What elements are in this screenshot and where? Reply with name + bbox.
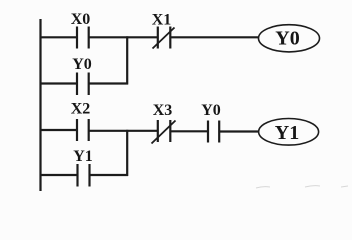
wire rung2: Y0 contact to coil Y1 xyxy=(219,130,259,132)
coil Y0 (output) xyxy=(259,25,320,52)
coil Y1 (output) xyxy=(259,119,319,146)
contact Y0 (normally open, parallel branch) xyxy=(77,73,89,96)
contact Y0 (normally open, series rung2) xyxy=(208,121,219,143)
wire rung1: X0 to X1 (through branch junction) xyxy=(89,36,158,38)
branch junction wire (rung2 down to parallel branch) xyxy=(126,130,128,176)
svg-text:Y0: Y0 xyxy=(201,102,221,119)
wire branch1: rail to contact Y0 xyxy=(40,82,77,84)
wire rung2: X3 to contact Y0 xyxy=(170,130,208,132)
svg-text:Y1: Y1 xyxy=(73,148,93,165)
wire rung1: X1 to coil Y0 xyxy=(170,36,258,38)
faint scan smudges bottom-right (decorative) xyxy=(256,186,348,188)
wire branch2: Y1 contact to junction xyxy=(90,174,129,176)
contact Y1 (normally open, parallel branch) xyxy=(78,164,90,187)
svg-text:Y0: Y0 xyxy=(275,28,299,50)
svg-text:X2: X2 xyxy=(71,101,91,118)
wire rung1: rail to contact X0 xyxy=(40,36,77,38)
wire branch1: Y0 contact to junction xyxy=(89,82,128,84)
contact X0 (normally open) xyxy=(77,27,89,49)
contact X1 (normally closed) xyxy=(153,27,175,49)
wire branch2: rail to contact Y1 xyxy=(40,174,78,176)
contact X2 (normally open) xyxy=(77,119,89,141)
wire rung2: X2 to X3 (through branch junction) xyxy=(89,130,158,132)
svg-text:X0: X0 xyxy=(71,11,91,28)
svg-text:Y1: Y1 xyxy=(275,122,299,144)
svg-text:X1: X1 xyxy=(152,12,172,29)
wire rung2: rail to contact X2 xyxy=(40,129,77,131)
contact X3 (normally closed) xyxy=(152,120,176,144)
branch junction wire (rung1 down to parallel branch) xyxy=(126,36,128,84)
svg-text:Y0: Y0 xyxy=(72,56,92,73)
svg-text:X3: X3 xyxy=(153,102,173,119)
left power rail xyxy=(39,19,41,191)
